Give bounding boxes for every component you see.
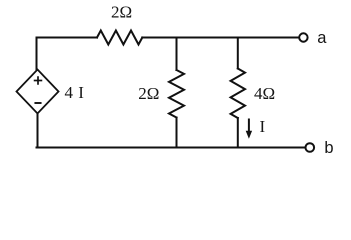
polarity minus sign inside source <box>35 102 40 104</box>
current arrow I (downward, beside 4Ω lower lead) <box>246 119 252 139</box>
resistor 2Ω (top, horizontal zigzag) <box>97 31 142 45</box>
svg-text:I: I <box>78 83 84 102</box>
svg-text:I: I <box>260 117 266 136</box>
terminal a (open circle) <box>299 33 307 41</box>
svg-text:2Ω: 2Ω <box>138 84 159 103</box>
wire: top rail left segment (corner to R-2ohm left lead) <box>37 37 98 39</box>
dependent voltage source 4I (diamond) <box>17 70 59 114</box>
resistor 4Ω (right, vertical zigzag) <box>231 69 245 119</box>
resistor 2Ω (middle, vertical zigzag) <box>169 70 184 118</box>
wire: top rail right segment (R-2ohm to terminal a) <box>142 37 298 39</box>
polarity plus sign inside source <box>35 77 42 84</box>
terminal b (open circle) <box>306 143 315 152</box>
wire: right branch lower lead <box>237 118 239 148</box>
wire: bottom rail (left corner to terminal b) <box>37 147 305 149</box>
svg-text:2Ω: 2Ω <box>111 2 132 21</box>
svg-text:4: 4 <box>65 83 74 102</box>
wire: top-left vertical (source top to top rail) <box>36 38 38 70</box>
wire: middle branch upper lead <box>176 38 178 71</box>
wire: middle branch lower lead <box>176 118 178 148</box>
svg-text:4Ω: 4Ω <box>254 84 275 103</box>
wire: right branch upper lead <box>237 38 239 69</box>
wire: bottom-left vertical (source bottom to bottom rail) <box>37 114 38 148</box>
svg-text:b: b <box>324 139 333 157</box>
svg-text:a: a <box>317 29 327 47</box>
